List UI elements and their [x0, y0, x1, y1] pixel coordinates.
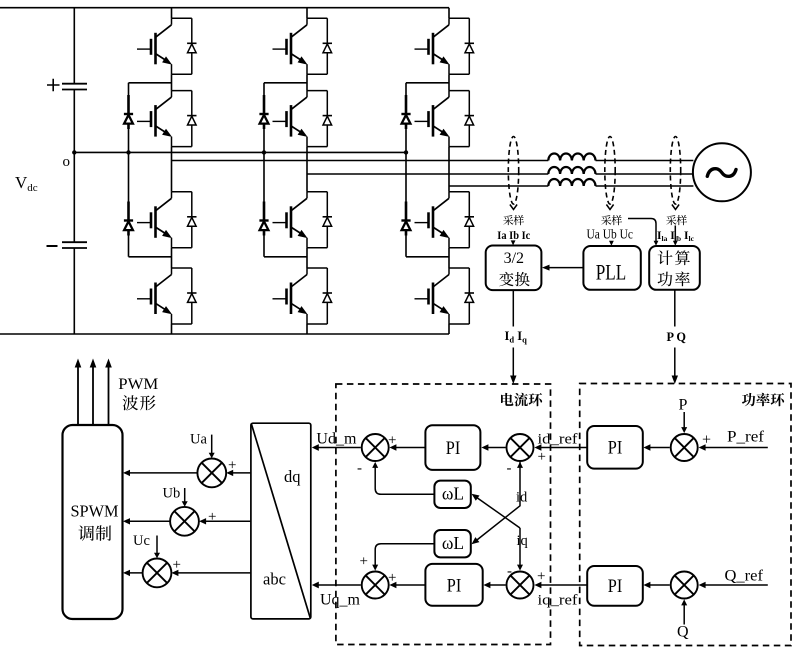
svg-text:id: id	[516, 490, 528, 506]
svg-text:PI: PI	[446, 438, 461, 459]
svg-text:+: +	[538, 449, 546, 465]
svg-text:Ua Ub Uc: Ua Ub Uc	[587, 228, 634, 243]
svg-text:P: P	[679, 397, 688, 414]
svg-text:Uc: Uc	[133, 533, 150, 549]
svg-text:iq_ref: iq_ref	[538, 593, 578, 609]
svg-text:o: o	[63, 154, 71, 170]
svg-text:+: +	[702, 432, 711, 449]
svg-text:-: -	[507, 564, 512, 580]
svg-text:Uq_m: Uq_m	[320, 592, 361, 609]
svg-text:+: +	[208, 509, 216, 525]
svg-text:Ia Ib Ic: Ia Ib Ic	[497, 230, 530, 242]
svg-text:ωL: ωL	[442, 484, 464, 504]
svg-text:PI: PI	[608, 438, 623, 459]
svg-text:dq: dq	[284, 467, 301, 486]
svg-text:SPWM: SPWM	[71, 502, 119, 521]
svg-text:P_ref: P_ref	[727, 429, 765, 446]
svg-text:Q_ref: Q_ref	[725, 568, 764, 585]
svg-text:abc: abc	[263, 570, 286, 589]
svg-text:Vdc: Vdc	[15, 173, 38, 194]
svg-text:Ub: Ub	[163, 485, 181, 501]
svg-text:PI: PI	[608, 576, 623, 597]
svg-text:P Q: P Q	[667, 329, 687, 344]
svg-text:-: -	[357, 461, 362, 477]
svg-text:PLL: PLL	[596, 259, 627, 284]
svg-text:id_ref: id_ref	[538, 431, 578, 447]
svg-text:PI: PI	[447, 576, 462, 597]
svg-text:+: +	[228, 458, 236, 474]
svg-text:PWM: PWM	[118, 376, 158, 393]
svg-text:+: +	[173, 557, 181, 573]
svg-text:+: +	[388, 570, 396, 586]
svg-text:Id Iq: Id Iq	[505, 329, 528, 345]
svg-text:+: +	[537, 569, 545, 585]
svg-text:3/2: 3/2	[504, 250, 524, 267]
svg-text:Ua: Ua	[190, 432, 207, 448]
svg-text:+: +	[360, 554, 368, 570]
svg-text:iq: iq	[517, 533, 528, 549]
svg-text:Q: Q	[677, 624, 689, 641]
svg-text:ωL: ωL	[442, 533, 464, 553]
svg-text:-: -	[507, 461, 512, 477]
svg-text:+: +	[388, 433, 396, 449]
